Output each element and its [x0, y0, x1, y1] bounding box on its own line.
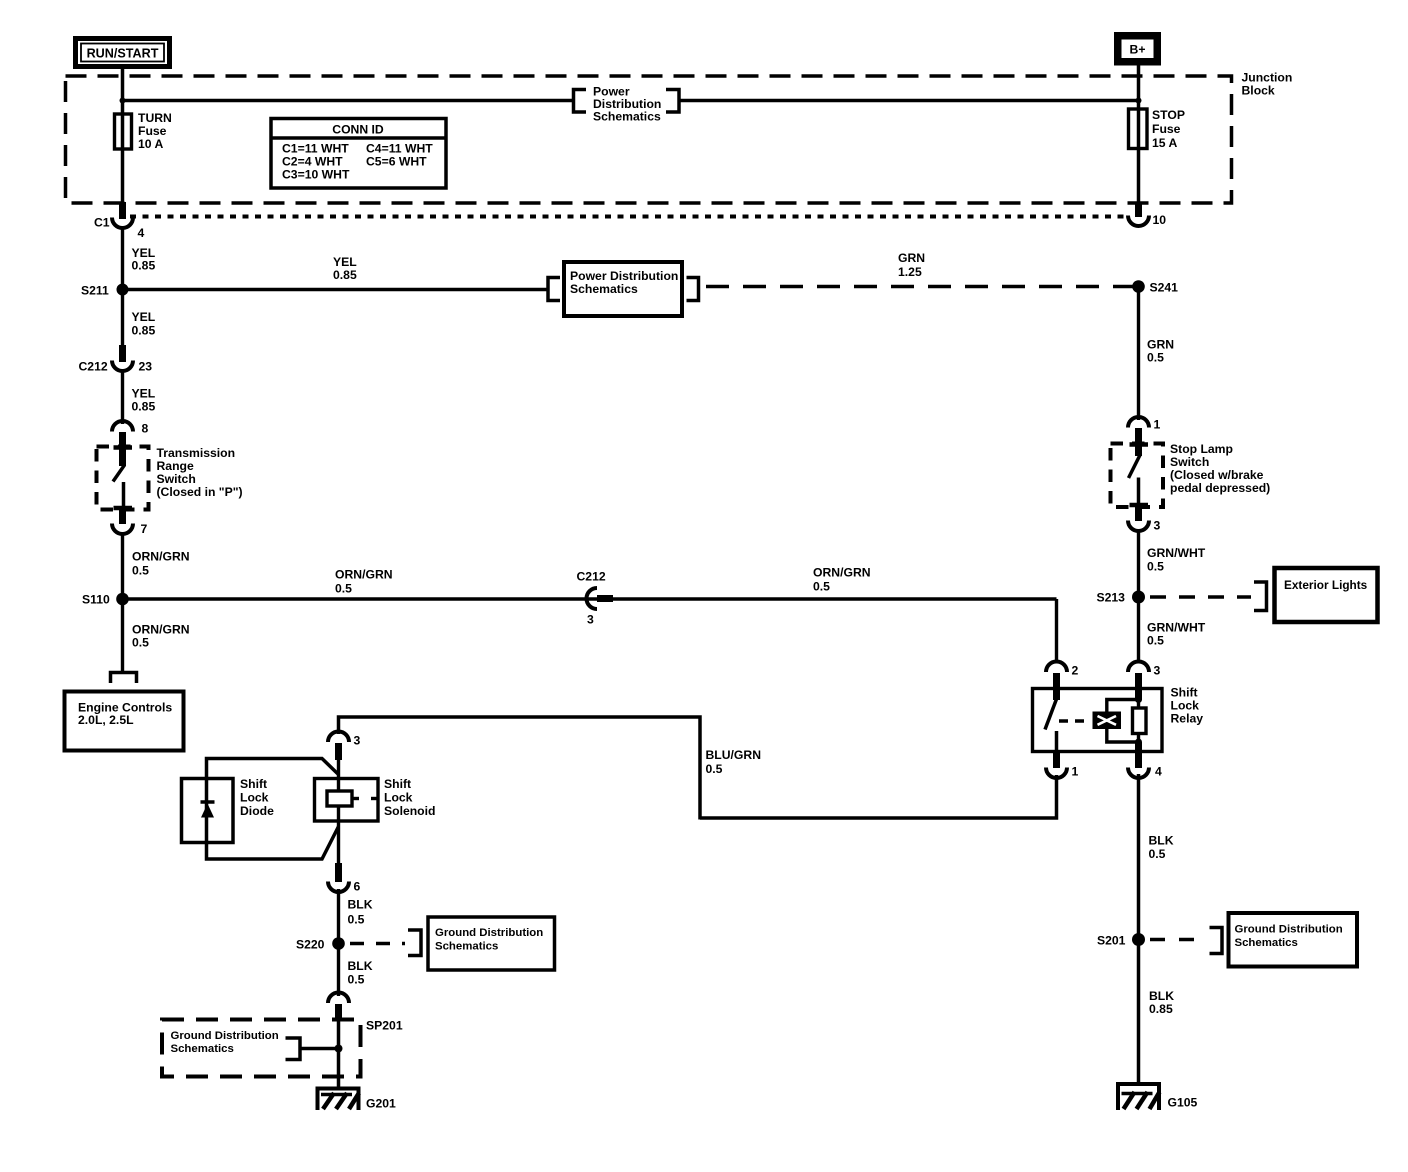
- node S213: [1097, 591, 1146, 605]
- svg-text:C1=11 WHT: C1=11 WHT: [282, 142, 349, 156]
- svg-text:0.5: 0.5: [335, 582, 352, 596]
- svg-text:BLK: BLK: [348, 898, 373, 912]
- connector SP201 splice pack: [328, 992, 403, 1032]
- wire S110 horizontal run to relay branch, labels ORN/GRN 0.5: [123, 566, 1057, 600]
- CONN ID table: [271, 119, 446, 189]
- svg-text:S241: S241: [1150, 281, 1179, 295]
- svg-text:Lock: Lock: [240, 791, 269, 805]
- fuse STOP 15A: [1129, 108, 1185, 150]
- svg-text:1: 1: [1072, 765, 1079, 779]
- svg-text:G105: G105: [1168, 1096, 1198, 1110]
- connector pin 1 (stop lamp switch): [1128, 417, 1161, 456]
- relay U: shift lock relay box: [1033, 686, 1204, 752]
- svg-text:S211: S211: [81, 284, 109, 298]
- svg-text:pedal depressed): pedal depressed): [1170, 481, 1270, 495]
- svg-text:(Closed in "P"): (Closed in "P"): [157, 485, 243, 499]
- svg-text:BLU/GRN: BLU/GRN: [706, 748, 762, 762]
- svg-text:Power Distribution: Power Distribution: [570, 269, 678, 283]
- svg-text:Block: Block: [1242, 84, 1275, 98]
- svg-text:1.25: 1.25: [898, 265, 922, 279]
- svg-text:0.85: 0.85: [1149, 1002, 1173, 1016]
- wire S241 to stop lamp switch, label GRN 0.5: [1139, 287, 1175, 421]
- svg-text:0.85: 0.85: [132, 324, 156, 338]
- wire relay pin4 to S201, label BLK 0.5: [1139, 774, 1174, 934]
- connector pin 1 (shift lock relay): [1046, 751, 1079, 779]
- svg-text:8: 8: [142, 422, 149, 436]
- node S241: [1132, 280, 1178, 294]
- svg-text:C2=4 WHT: C2=4 WHT: [282, 155, 343, 169]
- svg-text:4: 4: [1155, 765, 1162, 779]
- wire into solenoid: [337, 757, 340, 780]
- svg-text:Solenoid: Solenoid: [384, 804, 435, 818]
- svg-text:C212: C212: [79, 360, 108, 374]
- svg-text:0.5: 0.5: [348, 973, 365, 987]
- connector pin 7 (transmission range switch): [112, 510, 148, 536]
- svg-text:TURN: TURN: [138, 111, 172, 125]
- svg-text:10: 10: [1153, 213, 1167, 227]
- engine controls box: [65, 692, 184, 751]
- svg-text:BLK: BLK: [348, 959, 373, 973]
- connector pin 3 (shift lock relay): [1128, 662, 1161, 701]
- svg-text:Shift: Shift: [1171, 686, 1198, 700]
- RUN/START power label box: [73, 36, 172, 69]
- off-page connector Power Distribution Schematics (boxed, middle): [548, 262, 699, 316]
- svg-text:0.5: 0.5: [1149, 847, 1166, 861]
- wire S211 to off-page connector, label YEL 0.85: [123, 255, 549, 290]
- svg-text:STOP: STOP: [1152, 108, 1185, 122]
- svg-text:0.5: 0.5: [132, 636, 149, 650]
- svg-text:YEL: YEL: [333, 255, 357, 269]
- svg-text:0.5: 0.5: [813, 580, 830, 594]
- svg-text:0.5: 0.5: [706, 762, 723, 776]
- node S201: [1097, 933, 1145, 948]
- svg-text:10 A: 10 A: [138, 137, 163, 151]
- connector pin 3 (stop lamp switch): [1128, 507, 1161, 533]
- node S211: [81, 284, 129, 298]
- SP201 dashed box with ground distribution tap: [162, 1020, 361, 1077]
- svg-text:Switch: Switch: [157, 472, 196, 486]
- svg-text:Range: Range: [157, 459, 194, 473]
- svg-text:GRN/WHT: GRN/WHT: [1147, 546, 1206, 560]
- svg-text:GRN: GRN: [898, 251, 925, 265]
- svg-text:B+: B+: [1130, 43, 1146, 57]
- wire pin6 to S220, label BLK 0.5: [339, 889, 373, 944]
- diode D: shift lock diode loop: [182, 759, 339, 860]
- wire S220 to SP201, label BLK 0.5: [339, 944, 373, 997]
- svg-text:0.5: 0.5: [1147, 634, 1164, 648]
- wire relay pin1 routed to shift lock solenoid, label BLU/GRN 0.5: [339, 717, 1057, 820]
- relay coil: [1093, 696, 1143, 746]
- svg-text:CONN ID: CONN ID: [332, 123, 384, 137]
- wire: horizontal bus to Power Distribution Schematics (left half): [123, 99, 574, 102]
- svg-text:BLK: BLK: [1149, 834, 1174, 848]
- svg-text:Schematics: Schematics: [1235, 937, 1298, 949]
- wire S211 to C212, label YEL 0.85: [123, 290, 156, 348]
- connector pin 8 (transmission range switch): [112, 421, 149, 466]
- off-page connector Power Distribution Schematics (top): [574, 85, 680, 124]
- svg-text:Transmission: Transmission: [157, 446, 236, 460]
- svg-text:1: 1: [1154, 418, 1161, 432]
- svg-text:Schematics: Schematics: [171, 1043, 234, 1055]
- svg-text:Stop Lamp: Stop Lamp: [1170, 442, 1233, 456]
- svg-text:Schematics: Schematics: [570, 282, 638, 296]
- node S220: [296, 937, 345, 951]
- svg-text:GRN/WHT: GRN/WHT: [1147, 621, 1206, 635]
- stop lamp switch (dashed box with switch blade): [1111, 442, 1271, 512]
- solenoid L: shift lock solenoid box: [315, 777, 436, 866]
- wire pin7 to S110, label ORN/GRN 0.5: [123, 532, 190, 600]
- svg-text:Schematics: Schematics: [435, 941, 498, 953]
- wire S110 to engine controls, label ORN/GRN 0.5: [123, 599, 190, 671]
- svg-text:Schematics: Schematics: [593, 110, 661, 124]
- svg-text:3: 3: [1154, 664, 1161, 678]
- node junction at turn fuse branch: [120, 98, 126, 104]
- svg-text:0.5: 0.5: [1147, 560, 1164, 574]
- svg-text:GRN: GRN: [1147, 338, 1174, 352]
- wire: horizontal bus right half to STOP fuse: [679, 99, 1139, 102]
- svg-text:3: 3: [1154, 519, 1161, 533]
- dashed wire S213 to exterior lights: [1150, 595, 1251, 599]
- svg-text:C1: C1: [94, 216, 110, 230]
- svg-text:BLK: BLK: [1149, 989, 1174, 1003]
- svg-text:Lock: Lock: [384, 791, 413, 805]
- svg-text:ORN/GRN: ORN/GRN: [132, 623, 190, 637]
- wire pin3 to S213, label GRN/WHT 0.5: [1139, 529, 1206, 598]
- connector pin 2 (shift lock relay): [1046, 662, 1079, 701]
- relay switch blade (pin2 to pin1): [1045, 699, 1091, 752]
- svg-text:C5=6 WHT: C5=6 WHT: [366, 155, 427, 169]
- svg-text:0.5: 0.5: [1147, 351, 1164, 365]
- connector C1 pin 4: [94, 202, 145, 240]
- connector bracket into engine controls: [111, 673, 137, 684]
- svg-text:S110: S110: [82, 593, 110, 607]
- connector C1 dotted interconnect line: [130, 215, 1124, 219]
- connector bracket exterior lights: [1254, 582, 1267, 611]
- node S110: [82, 593, 129, 607]
- svg-text:Shift: Shift: [384, 777, 411, 791]
- wire S213 to relay pin 3, label GRN/WHT 0.5: [1139, 597, 1206, 663]
- svg-text:0.85: 0.85: [132, 259, 156, 273]
- svg-text:C212: C212: [577, 570, 606, 584]
- B+ power label box: [1114, 32, 1161, 66]
- svg-text:Ground Distribution: Ground Distribution: [171, 1030, 279, 1042]
- svg-text:2.0L, 2.5L: 2.0L, 2.5L: [78, 713, 134, 727]
- svg-text:RUN/START: RUN/START: [87, 47, 159, 61]
- svg-text:S201: S201: [1097, 934, 1126, 948]
- svg-text:Exterior Lights: Exterior Lights: [1284, 578, 1368, 592]
- svg-text:ORN/GRN: ORN/GRN: [813, 566, 871, 580]
- connector pin 6 (solenoid ground side): [328, 863, 361, 894]
- svg-text:Ground Distribution: Ground Distribution: [435, 927, 543, 939]
- connector C212 pin 3 (mid-wire): [577, 570, 614, 627]
- wire SP201 through box to ground: [337, 1018, 341, 1090]
- wire C1 to S211, label YEL 0.85: [123, 226, 156, 290]
- svg-text:Shift: Shift: [240, 777, 267, 791]
- connector pin 10 (stop fuse output): [1128, 202, 1166, 227]
- svg-text:SP201: SP201: [366, 1019, 403, 1033]
- svg-text:Switch: Switch: [1170, 455, 1209, 469]
- svg-text:2: 2: [1072, 664, 1079, 678]
- svg-text:YEL: YEL: [132, 387, 156, 401]
- svg-text:(Closed w/brake: (Closed w/brake: [1170, 468, 1264, 482]
- wire down to shift lock relay pin 2: [1055, 599, 1058, 663]
- transmission range switch (dashed box with switch blade): [97, 446, 243, 514]
- wire from B+ down to STOP fuse: [1137, 65, 1141, 205]
- svg-text:3: 3: [354, 734, 361, 748]
- svg-text:Lock: Lock: [1171, 699, 1200, 713]
- svg-text:S213: S213: [1097, 591, 1126, 605]
- svg-text:Relay: Relay: [1171, 712, 1204, 726]
- wire S201 to ground, label BLK 0.85: [1139, 940, 1175, 1087]
- svg-text:23: 23: [139, 360, 153, 374]
- ground G105: [1116, 1083, 1198, 1111]
- svg-text:Fuse: Fuse: [138, 124, 167, 138]
- svg-text:15 A: 15 A: [1152, 136, 1177, 150]
- svg-text:4: 4: [138, 226, 145, 240]
- svg-text:0.5: 0.5: [348, 913, 365, 927]
- svg-text:0.85: 0.85: [333, 268, 357, 282]
- svg-text:G201: G201: [366, 1097, 396, 1111]
- connector pin 3 (shift lock solenoid): [328, 731, 361, 760]
- svg-text:S220: S220: [296, 938, 325, 952]
- ground distribution schematics box (S220): [428, 917, 555, 970]
- dashed wire to S241, label GRN 1.25: [706, 251, 1133, 287]
- ground distribution schematics box (S201): [1229, 913, 1358, 967]
- svg-text:0.85: 0.85: [132, 400, 156, 414]
- svg-text:C4=11 WHT: C4=11 WHT: [366, 142, 433, 156]
- dashed wire S201 to ground distribution: [1150, 938, 1206, 942]
- junction block (dashed boundary): [66, 71, 1293, 204]
- svg-text:YEL: YEL: [132, 310, 156, 324]
- svg-text:6: 6: [354, 880, 361, 894]
- dashed wire S220 to ground distribution: [350, 942, 405, 946]
- wire from RUN/START down to TURN fuse: [121, 68, 125, 205]
- connector bracket ground distribution (S220): [408, 930, 421, 956]
- svg-text:Fuse: Fuse: [1152, 122, 1181, 136]
- fuse TURN 10A: [115, 111, 172, 151]
- wire C212 to transmission range switch, label YEL 0.85: [123, 369, 156, 424]
- svg-text:C3=10 WHT: C3=10 WHT: [282, 168, 350, 182]
- svg-text:ORN/GRN: ORN/GRN: [132, 550, 190, 564]
- connector pin 4 (shift lock relay): [1128, 765, 1162, 779]
- connector C212 pin 23: [79, 345, 153, 374]
- svg-text:Ground Distribution: Ground Distribution: [1235, 924, 1343, 936]
- svg-text:Junction: Junction: [1242, 71, 1293, 85]
- ground G201: [316, 1087, 397, 1111]
- svg-text:7: 7: [141, 522, 148, 536]
- svg-text:0.5: 0.5: [132, 564, 149, 578]
- svg-text:3: 3: [587, 613, 594, 627]
- exterior lights box: [1275, 568, 1378, 622]
- relay internal resistor line pin3-pin4: [1133, 700, 1147, 769]
- svg-text:ORN/GRN: ORN/GRN: [335, 568, 393, 582]
- svg-text:Diode: Diode: [240, 804, 274, 818]
- connector bracket ground distribution (S201): [1210, 928, 1223, 954]
